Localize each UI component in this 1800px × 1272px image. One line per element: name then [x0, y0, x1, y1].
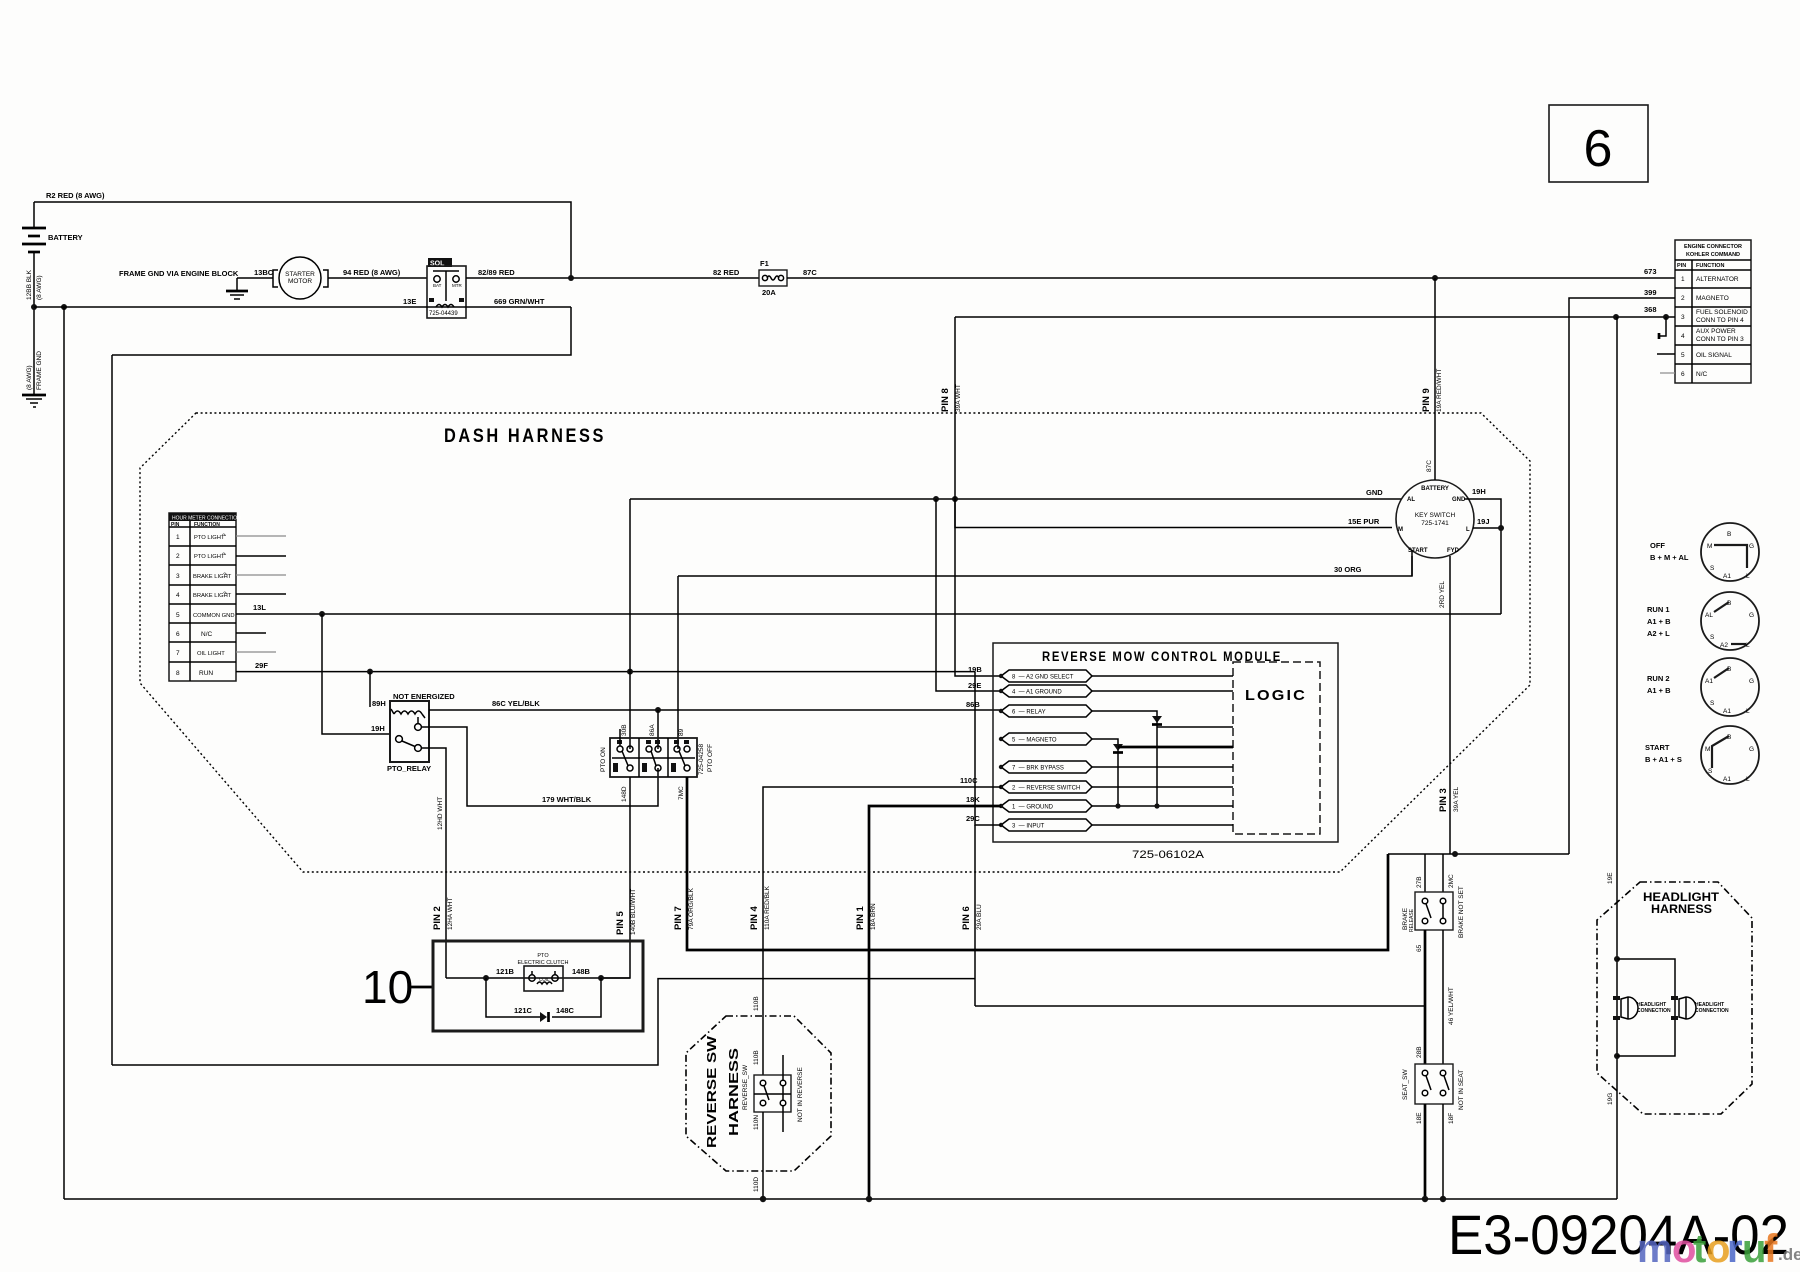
- svg-text:FYD: FYD: [1447, 548, 1460, 554]
- svg-text:t: t: [1693, 1227, 1706, 1271]
- wire brake right pin to seat 46 YEL/WHT: [1442, 930, 1444, 1064]
- svg-text:LOGIC: LOGIC: [1245, 687, 1307, 704]
- node headlight top: [1614, 956, 1620, 962]
- headlight harness boundary: [1597, 882, 1752, 1114]
- svg-text:OIL LIGHT: OIL LIGHT: [197, 651, 225, 657]
- wire key magneto FYD drop PIN 3: [1449, 556, 1451, 854]
- svg-text:HOUR METER CONNECTION: HOUR METER CONNECTION: [172, 516, 241, 522]
- node rail seat left: [1422, 1196, 1428, 1202]
- callout 10 electric clutch: [362, 941, 643, 1031]
- svg-text:399: 399: [1644, 288, 1657, 297]
- svg-text:REVERSE SW: REVERSE SW: [704, 1035, 719, 1148]
- svg-text:G: G: [1749, 746, 1754, 753]
- svg-text:82 RED: 82 RED: [713, 268, 740, 277]
- svg-text:FRAME GND VIA ENGINE BLOCK: FRAME GND VIA ENGINE BLOCK: [119, 269, 239, 278]
- label PIN 9: [1421, 369, 1443, 412]
- svg-text:PIN 3: PIN 3: [1438, 788, 1449, 812]
- module pin 4 A1 GROUND: [999, 685, 1233, 697]
- svg-text:148D: 148D: [621, 786, 628, 802]
- wire headlight feed vertical: [1616, 317, 1618, 1199]
- svg-text:PIN 9: PIN 9: [1421, 388, 1432, 412]
- svg-text:KEY SWITCH: KEY SWITCH: [1415, 512, 1456, 519]
- svg-text:M: M: [1705, 746, 1710, 753]
- svg-text:PIN 1: PIN 1: [855, 906, 866, 930]
- svg-text:KOHLER COMMAND: KOHLER COMMAND: [1686, 252, 1740, 258]
- svg-text:MTR: MTR: [452, 283, 462, 288]
- svg-text:65: 65: [1416, 944, 1423, 952]
- wire battery positive top loop: [34, 202, 571, 278]
- svg-text:2MC: 2MC: [1448, 874, 1455, 888]
- svg-text:19E: 19E: [1607, 872, 1614, 884]
- svg-text:5: 5: [1681, 352, 1685, 359]
- svg-text:2RD YEL: 2RD YEL: [1439, 581, 1446, 608]
- svg-text:m: m: [1637, 1227, 1673, 1271]
- svg-text:3 — INPUT: 3 — INPUT: [1012, 824, 1045, 830]
- wire 30 ORG start: [678, 556, 1412, 576]
- wire 15E PUR to key switch M: [955, 499, 1392, 528]
- svg-text:ALTERNATOR: ALTERNATOR: [1696, 276, 1739, 283]
- svg-text:REVERSE_SW: REVERSE_SW: [742, 1064, 749, 1110]
- wire solenoid coil return 669 GRN/WHT: [34, 307, 571, 1065]
- svg-text:AUX POWER: AUX POWER: [1696, 328, 1736, 335]
- wire relay NO to clutch PIN 2: [421, 748, 446, 978]
- wire pto switch PIN 7 brake feed: [687, 777, 1388, 950]
- svg-text:A1: A1: [1723, 776, 1731, 783]
- wire stub meter pin2: [236, 555, 286, 557]
- svg-text:N/C: N/C: [201, 631, 213, 638]
- svg-text:110B: 110B: [753, 1050, 760, 1065]
- wire brake switch left pin drop: [1424, 854, 1426, 892]
- wire brake switch right pin drop: [1442, 854, 1444, 892]
- svg-text:13E: 13E: [403, 297, 416, 306]
- svg-text:29F: 29F: [255, 661, 268, 670]
- wire seat left pin to rail: [1424, 1104, 1427, 1199]
- svg-text:725-04439: 725-04439: [429, 311, 458, 317]
- brake switch SW-BRAKE: [1402, 886, 1465, 938]
- node L junction: [1498, 525, 1504, 531]
- svg-text:110D: 110D: [753, 1177, 760, 1192]
- svg-text:PTO LIGHT: PTO LIGHT: [194, 554, 225, 560]
- svg-text:HARNESS: HARNESS: [1651, 902, 1712, 916]
- svg-text:A2 + L: A2 + L: [1647, 629, 1670, 638]
- svg-text:7MC: 7MC: [678, 786, 685, 800]
- node key switch battery feed: [1432, 275, 1438, 281]
- svg-text:RUN 2: RUN 2: [1647, 674, 1670, 683]
- svg-text:A1: A1: [1723, 708, 1731, 715]
- svg-text:368: 368: [1644, 305, 1657, 314]
- svg-text:673: 673: [1644, 267, 1657, 276]
- svg-text:(8 AWG): (8 AWG): [36, 275, 43, 300]
- svg-text:18K: 18K: [966, 795, 980, 804]
- dash harness boundary: [140, 413, 1530, 872]
- svg-text:669 GRN/WHT: 669 GRN/WHT: [494, 297, 545, 306]
- wire run 29F: [236, 671, 975, 673]
- wire reverse switch to module row 110C: [763, 787, 1001, 1016]
- node solenoid output junction: [568, 275, 574, 281]
- svg-text:PTO OFF: PTO OFF: [707, 744, 714, 772]
- svg-text:N/C: N/C: [1696, 371, 1708, 378]
- svg-text:CONN TO PIN 3: CONN TO PIN 3: [1696, 336, 1744, 343]
- pto electric clutch L1: [517, 953, 568, 991]
- node pin3 to brake junction: [1452, 851, 1458, 857]
- node clutch left: [483, 975, 489, 981]
- svg-text:.de: .de: [1778, 1245, 1800, 1264]
- label HEADLIGHT HARNESS: [1643, 890, 1720, 916]
- svg-text:u: u: [1742, 1227, 1766, 1271]
- wire stub oil signal pin5: [1657, 353, 1675, 355]
- wire 86A down to pto switch: [657, 710, 659, 749]
- svg-text:6 — RELAY: 6 — RELAY: [1012, 710, 1046, 716]
- wire engine gnd to starter: [237, 277, 273, 279]
- svg-text:RUN 1: RUN 1: [1647, 605, 1670, 614]
- reverse switch SW-REV: [742, 1055, 804, 1132]
- svg-text:725-1741: 725-1741: [1421, 520, 1449, 527]
- module pin 1 GROUND: [999, 800, 1233, 812]
- svg-text:CONNECTION: CONNECTION: [1695, 1008, 1729, 1014]
- wire reverse switch to rail: [762, 1112, 764, 1199]
- engine connector table KOHLER COMMAND: [1675, 240, 1751, 383]
- svg-text:19G: 19G: [1607, 1093, 1614, 1105]
- svg-text:30B: 30B: [621, 724, 628, 736]
- pto relay K1: [387, 692, 455, 773]
- wire key L 19J: [1473, 527, 1501, 529]
- svg-text:FUEL SOLENOID: FUEL SOLENOID: [1696, 309, 1748, 316]
- svg-text:G: G: [1749, 543, 1754, 550]
- wire module input 29C net: [975, 672, 1001, 825]
- wire A1 ground to module row2: [936, 499, 1001, 691]
- svg-text:L: L: [1746, 708, 1750, 715]
- svg-text:B + M + AL: B + M + AL: [1650, 553, 1689, 562]
- node fuel solenoid tap: [1663, 314, 1669, 320]
- label REVERSE SW HARNESS rotated: [704, 1035, 741, 1148]
- headlight lamp left: [1613, 996, 1671, 1020]
- svg-text:M: M: [1707, 543, 1712, 550]
- wire stub meter pin7: [236, 651, 276, 653]
- svg-text:PIN 2: PIN 2: [432, 906, 443, 930]
- wire run feed to clutch net: [112, 979, 975, 1065]
- svg-text:2: 2: [1681, 295, 1685, 302]
- svg-text:725-06102A: 725-06102A: [1132, 849, 1205, 861]
- svg-text:10: 10: [362, 961, 413, 1013]
- wire battery negative down to frame ground: [33, 307, 35, 394]
- sheet number box 6: [1549, 105, 1648, 182]
- svg-text:6: 6: [1681, 371, 1685, 378]
- wire stub pin6: [1660, 372, 1675, 374]
- label PIN 1: [855, 903, 877, 930]
- svg-text:13BC: 13BC: [254, 268, 274, 277]
- svg-text:R2 RED (8 AWG): R2 RED (8 AWG): [46, 191, 105, 200]
- svg-text:121B: 121B: [496, 967, 515, 976]
- svg-text:89: 89: [678, 728, 685, 736]
- svg-text:G: G: [1749, 612, 1754, 619]
- hour meter connection table: [169, 513, 241, 681]
- svg-text:3: 3: [1681, 314, 1685, 321]
- wire relay coil feed 89H: [369, 672, 371, 707]
- node relay coil tap: [367, 669, 373, 675]
- ground symbol engine block: [226, 278, 248, 299]
- label PIN 7: [673, 887, 695, 930]
- svg-text:PTO ON: PTO ON: [600, 747, 607, 772]
- svg-text:6: 6: [176, 631, 180, 638]
- svg-text:r: r: [1727, 1227, 1743, 1271]
- svg-text:87C: 87C: [1426, 460, 1433, 472]
- svg-text:12HD WHT: 12HD WHT: [437, 797, 444, 830]
- module pin 3 INPUT: [999, 819, 1233, 831]
- module pin 6 RELAY: [999, 705, 1092, 717]
- wire relay row to logic with diode: [1092, 711, 1233, 806]
- svg-text:110B: 110B: [753, 996, 760, 1011]
- svg-text:BATTERY: BATTERY: [1421, 486, 1449, 492]
- svg-text:46 YEL/WHT: 46 YEL/WHT: [1448, 987, 1455, 1025]
- svg-text:G: G: [1749, 678, 1754, 685]
- svg-text:A1 + B: A1 + B: [1647, 617, 1671, 626]
- svg-text:PIN: PIN: [1677, 263, 1686, 269]
- svg-text:29C: 29C: [966, 814, 980, 823]
- wire key battery feed vertical: [1434, 278, 1436, 480]
- module pin 7 BRK BYPASS: [999, 761, 1233, 773]
- wire magneto bus row3: [955, 316, 1675, 318]
- wire starter to solenoid: [328, 277, 427, 279]
- svg-text:MOTOR: MOTOR: [288, 278, 312, 285]
- wire pto switch to clutch PIN 5: [601, 777, 630, 978]
- wire relay NC to 179 WHT/BLK: [421, 727, 658, 806]
- svg-text:PTO: PTO: [537, 953, 549, 959]
- svg-text:B + A1 + S: B + A1 + S: [1645, 755, 1682, 764]
- node rail reverse: [760, 1196, 766, 1202]
- node 29A tap: [933, 496, 939, 502]
- svg-text:GND: GND: [1366, 488, 1383, 497]
- wire stub meter pin4: [236, 593, 286, 595]
- wire magneto row to logic with diode: [1092, 739, 1233, 806]
- svg-text:4: 4: [176, 592, 180, 599]
- svg-text:F1: F1: [760, 259, 769, 268]
- svg-text:89H: 89H: [372, 699, 386, 708]
- svg-text:HARNESS: HARNESS: [726, 1048, 741, 1136]
- fuse F1 20A: [759, 259, 787, 297]
- svg-text:GND: GND: [1452, 497, 1466, 503]
- wire relay coil out 86C YEL/BLK to module row3: [429, 709, 1001, 711]
- key position diagram START: [1645, 726, 1759, 784]
- svg-text:AL: AL: [1705, 612, 1713, 619]
- svg-text:121C: 121C: [514, 1006, 533, 1015]
- svg-text:(8 AWG): (8 AWG): [26, 365, 33, 390]
- svg-text:12BB BLK: 12BB BLK: [26, 269, 33, 300]
- svg-text:2: 2: [176, 553, 180, 560]
- svg-text:82/89 RED: 82/89 RED: [478, 268, 515, 277]
- wire pto sw left feed: [629, 499, 631, 749]
- wire reverse switch feed vertical: [762, 1016, 764, 1075]
- wire stub meter pin3: [236, 574, 286, 576]
- module pin 8 A2 GND SELECT: [999, 670, 1233, 682]
- wire headlight loop: [1617, 959, 1675, 1056]
- svg-text:FUNCTION: FUNCTION: [1696, 263, 1724, 269]
- node rail seat right: [1440, 1196, 1446, 1202]
- svg-text:140B BLU/WHT: 140B BLU/WHT: [630, 889, 637, 935]
- svg-text:110A RED/BLK: 110A RED/BLK: [764, 885, 771, 930]
- starter motor M1: [273, 257, 328, 299]
- reverse mow control module 725-06102A: [993, 643, 1338, 861]
- module pin 2 REVERSE SWITCH: [999, 781, 1233, 793]
- svg-text:20A: 20A: [762, 288, 776, 297]
- svg-text:148B: 148B: [572, 967, 591, 976]
- svg-text:L: L: [1466, 527, 1470, 533]
- node headlight feed tap: [1613, 314, 1619, 320]
- svg-text:M: M: [1398, 527, 1403, 533]
- svg-text:S: S: [1710, 565, 1715, 572]
- svg-text:S: S: [1710, 700, 1715, 707]
- logic block: [1233, 662, 1320, 834]
- wire gnd branch down to pto relay: [322, 614, 390, 734]
- wire solenoid to fuse: [466, 277, 759, 279]
- svg-text:15E PUR: 15E PUR: [1348, 517, 1380, 526]
- svg-text:CONNECTION: CONNECTION: [1637, 1008, 1671, 1014]
- svg-text:86C YEL/BLK: 86C YEL/BLK: [492, 699, 540, 708]
- svg-text:5 — MAGNETO: 5 — MAGNETO: [1012, 738, 1057, 744]
- wire fuse to engine connector pin1: [787, 277, 1675, 279]
- svg-text:6: 6: [1584, 120, 1613, 178]
- wire seat right pin to rail: [1442, 1104, 1444, 1199]
- svg-text:L: L: [1746, 642, 1750, 649]
- wire magneto row2: [1569, 298, 1675, 854]
- svg-text:PTO_RELAY: PTO_RELAY: [387, 764, 431, 773]
- svg-text:RUN: RUN: [199, 670, 213, 677]
- svg-text:2 — REVERSE SWITCH: 2 — REVERSE SWITCH: [1012, 786, 1080, 792]
- ground symbol battery frame ground: [22, 395, 46, 407]
- svg-text:A1: A1: [1705, 678, 1713, 685]
- label PIN 8: [940, 384, 962, 412]
- svg-text:STARTER: STARTER: [285, 271, 315, 278]
- label PIN 5: [615, 889, 637, 935]
- pto switch 725-04258: [600, 729, 714, 777]
- svg-text:18F: 18F: [1448, 1113, 1455, 1124]
- svg-text:BAT: BAT: [433, 283, 442, 288]
- svg-text:4 — A1 GROUND: 4 — A1 GROUND: [1012, 690, 1062, 696]
- node pto switch feed tap: [627, 669, 633, 675]
- svg-text:RELEASE: RELEASE: [1409, 908, 1415, 932]
- wire stub meter pin1: [236, 535, 286, 537]
- wire key GND 19H loop: [1464, 499, 1501, 614]
- node common gnd branch: [319, 611, 325, 617]
- svg-text:COMMON GND: COMMON GND: [193, 613, 235, 619]
- svg-text:18E: 18E: [1416, 1112, 1423, 1124]
- svg-text:A1: A1: [1723, 573, 1731, 580]
- node pto switch 86A tap: [655, 707, 661, 713]
- watermark motoruf.de: [1637, 1227, 1800, 1271]
- svg-text:4: 4: [1681, 333, 1685, 340]
- wire brake left pin down: [1424, 930, 1427, 1064]
- wire label 12BB BLK (8 AWG) rotated: [26, 269, 43, 300]
- svg-text:19A RED/WHT: 19A RED/WHT: [1436, 369, 1443, 412]
- module pin 5 MAGNETO: [999, 733, 1092, 745]
- svg-text:BRAKE: BRAKE: [1402, 907, 1409, 930]
- wire clutch main: [446, 977, 630, 979]
- svg-text:8: 8: [176, 670, 180, 677]
- svg-text:5: 5: [176, 612, 180, 619]
- svg-text:NOT IN SEAT: NOT IN SEAT: [1458, 1070, 1465, 1110]
- starter solenoid 725-04439: [427, 258, 466, 318]
- svg-text:7 — BRK BYPASS: 7 — BRK BYPASS: [1012, 766, 1064, 772]
- svg-text:7: 7: [176, 650, 180, 657]
- svg-text:f: f: [1764, 1227, 1778, 1271]
- svg-text:L: L: [1746, 573, 1750, 580]
- svg-text:ENGINE CONNECTOR: ENGINE CONNECTOR: [1684, 244, 1742, 250]
- svg-text:30 ORG: 30 ORG: [1334, 565, 1362, 574]
- reverse sw harness boundary: [686, 1016, 831, 1171]
- wire stub meter pin6: [236, 632, 266, 634]
- svg-text:87C: 87C: [803, 268, 817, 277]
- label PIN 2: [432, 897, 454, 930]
- svg-text:39A WHT: 39A WHT: [955, 384, 962, 412]
- label PIN 4: [749, 885, 771, 930]
- svg-text:94 RED (8 AWG): 94 RED (8 AWG): [343, 268, 401, 277]
- svg-text:29A BLU: 29A BLU: [976, 904, 983, 930]
- svg-text:110N: 110N: [753, 1115, 760, 1130]
- wire pin3 to pin4 bracket: [1659, 317, 1666, 336]
- svg-text:1 — GROUND: 1 — GROUND: [1012, 805, 1054, 811]
- svg-text:A1 + B: A1 + B: [1647, 686, 1671, 695]
- svg-text:SEAT_SW: SEAT_SW: [1402, 1069, 1409, 1100]
- svg-text:START: START: [1408, 548, 1428, 554]
- svg-text:NOT IN REVERSE: NOT IN REVERSE: [797, 1067, 804, 1122]
- svg-text:13L: 13L: [253, 603, 266, 612]
- svg-text:OFF: OFF: [1650, 541, 1665, 550]
- svg-text:B: B: [1727, 531, 1731, 538]
- node battery negative bus: [31, 304, 37, 310]
- svg-text:PIN 5: PIN 5: [615, 911, 626, 935]
- svg-text:1: 1: [176, 534, 180, 541]
- key position diagram RUN 2: [1647, 658, 1759, 716]
- svg-text:28B: 28B: [1416, 1046, 1423, 1058]
- wire module ground 18K to bottom rail: [869, 806, 1001, 1199]
- svg-text:19H: 19H: [1472, 487, 1486, 496]
- bottom ground rail: [64, 1198, 1617, 1200]
- svg-text:79A ORG/BLK: 79A ORG/BLK: [688, 887, 695, 930]
- battery B1: [22, 202, 83, 307]
- wire seat switch feed: [975, 1005, 1425, 1007]
- wire ground bus down left side: [63, 307, 65, 1199]
- wire label FRAME GND (8 AWG) rotated: [26, 351, 43, 390]
- svg-text:18A BRN: 18A BRN: [870, 903, 877, 930]
- key position diagram RUN 1: [1647, 592, 1759, 650]
- svg-text:3: 3: [176, 573, 180, 580]
- svg-text:27B: 27B: [1416, 876, 1423, 888]
- wire pin8 vertical to module row1: [955, 317, 1001, 676]
- svg-text:FRAME GND: FRAME GND: [36, 351, 43, 390]
- svg-text:8 — A2 GND SELECT: 8 — A2 GND SELECT: [1012, 675, 1074, 681]
- svg-text:L: L: [1746, 776, 1750, 783]
- node headlight bottom: [1614, 1053, 1620, 1059]
- svg-text:A2: A2: [1720, 642, 1728, 649]
- svg-text:PIN 8: PIN 8: [940, 388, 951, 412]
- node rail module gnd: [866, 1196, 872, 1202]
- key position diagram OFF: [1650, 523, 1759, 581]
- svg-text:S: S: [1710, 634, 1715, 641]
- wire key START drop: [1411, 550, 1413, 576]
- svg-text:19H: 19H: [371, 724, 385, 733]
- svg-text:PIN 6: PIN 6: [961, 906, 972, 930]
- svg-text:CONN TO PIN 4: CONN TO PIN 4: [1696, 317, 1744, 324]
- svg-text:FUNCTION: FUNCTION: [194, 522, 220, 528]
- svg-text:OIL SIGNAL: OIL SIGNAL: [1696, 352, 1732, 359]
- svg-text:1: 1: [1681, 276, 1685, 283]
- svg-text:BATTERY: BATTERY: [48, 233, 83, 242]
- svg-text:MAGNETO: MAGNETO: [1696, 295, 1729, 302]
- svg-text:39A YEL: 39A YEL: [1453, 786, 1460, 812]
- label PIN 3: [1438, 786, 1460, 812]
- key switch 725-1741: [1396, 480, 1474, 558]
- svg-text:ELECTRIC CLUTCH: ELECTRIC CLUTCH: [517, 960, 568, 966]
- svg-text:START: START: [1645, 743, 1670, 752]
